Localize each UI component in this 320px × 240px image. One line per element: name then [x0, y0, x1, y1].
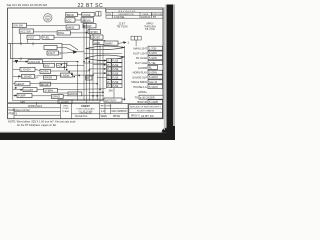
cascade box b5 — [91, 35, 104, 39]
svg-text:LDOCK: LDOCK — [69, 92, 78, 96]
battery box — [104, 98, 122, 102]
wire arrow down-left — [15, 60, 19, 63]
cable loom lens lower — [86, 55, 125, 60]
fuse block row f7 — [107, 84, 123, 88]
svg-text:BRKR: BRKR — [67, 13, 74, 17]
svg-text:GRND: GRND — [52, 95, 60, 99]
wire list row w5 — [138, 65, 158, 69]
svg-text:5-TACH: 5-TACH — [149, 86, 158, 89]
svg-text:BT: BT — [153, 16, 157, 19]
svg-text:SCALE FUL: SCALE FUL — [75, 115, 88, 118]
title block center dividers — [71, 104, 128, 119]
junction dots — [77, 25, 125, 100]
svg-text:FUSE: FUSE — [112, 86, 119, 88]
fuse block row f4 — [107, 71, 123, 75]
svg-text:BILGE: BILGE — [41, 82, 49, 86]
svg-text:L BAND: L BAND — [22, 75, 31, 79]
callout box harness — [104, 41, 118, 45]
svg-text:22 B T: 22 B T — [119, 24, 126, 26]
svg-text:LTR: LTR — [107, 14, 111, 16]
connector 3-cell — [131, 36, 141, 40]
page background — [0, 0, 175, 140]
cascade box b6 — [93, 41, 105, 45]
connector drop wire — [135, 40, 137, 46]
svg-text:LTANK: LTANK — [83, 13, 91, 17]
device box row r4a — [15, 82, 30, 86]
cascade box a2 — [65, 18, 75, 23]
svg-text:5-ORN: 5-ORN — [149, 71, 157, 74]
device box row r3c — [61, 73, 73, 77]
wire list row w10 — [138, 91, 147, 94]
svg-text:WASH: WASH — [44, 76, 52, 80]
approval stamp circle — [44, 14, 52, 22]
svg-text:IGN SW: IGN SW — [13, 24, 23, 28]
wire stubs left column — [13, 8, 106, 96]
page edge shadow line — [164, 7, 165, 130]
svg-text:A SR REL: A SR REL — [114, 16, 125, 19]
svg-text:22 BT SC: 22 BT SC — [141, 114, 155, 118]
scan band soft edge — [165, 5, 167, 129]
svg-text:R E V I S I O N S: R E V I S I O N S — [119, 11, 136, 13]
svg-text:10/20/14: 10/20/14 — [141, 16, 151, 19]
svg-text:5-GRN: 5-GRN — [149, 57, 157, 60]
svg-text:LIVEW: LIVEW — [61, 73, 70, 77]
wire list row w11 wide — [135, 95, 163, 99]
svg-text:TO ANG: TO ANG — [62, 110, 70, 113]
svg-text:FUSE: FUSE — [112, 82, 119, 84]
svg-text:HORN: HORN — [41, 70, 49, 74]
wire list row w9 — [133, 85, 162, 89]
wire list row w2 — [133, 51, 162, 55]
svg-text:LBOW: LBOW — [84, 24, 92, 28]
wire list row w12 — [138, 100, 163, 104]
device box L-HARN — [58, 100, 72, 104]
svg-text:HORN RLAY: HORN RLAY — [133, 72, 148, 75]
svg-text:for the 8T hold/pass. pages on: for the 8T hold/pass. pages on file. — [17, 123, 57, 127]
fuse block row f2 — [107, 63, 123, 67]
scan black corner extension — [167, 126, 176, 140]
fuse feed arrowheads — [104, 60, 107, 75]
svg-text:]Σ: ]Σ — [35, 75, 38, 79]
wire trunk verticals — [78, 17, 125, 103]
device box row r4b — [40, 82, 51, 86]
svg-text:5-GRAY: 5-GRAY — [149, 76, 158, 79]
svg-text:AERAT: AERAT — [16, 82, 25, 86]
device box row r6c — [51, 95, 63, 99]
svg-text:PLLT GGE: PLLT GGE — [135, 62, 147, 65]
svg-text:PUMP: PUMP — [18, 94, 26, 98]
wire rows mid — [27, 25, 125, 99]
svg-text:TRI TOON: TRI TOON — [117, 26, 128, 28]
device box row r1a — [28, 60, 43, 64]
svg-text:NOTE: Wired allow .055 X 1.00: NOTE: Wired allow .055 X 1.00 true br7. … — [8, 119, 76, 123]
svg-text:SEEN: SEEN — [101, 116, 108, 118]
wire list row w7 — [132, 75, 162, 79]
fuse block row f5 — [107, 76, 123, 80]
device box row r5c — [68, 92, 82, 96]
device box row r1c — [57, 63, 67, 67]
fuse feed wires — [89, 61, 106, 78]
loom tip arrow upper — [122, 47, 126, 49]
wire list row w4 — [135, 61, 163, 65]
wire mid horizontal b — [84, 62, 106, 64]
helm switch box S2 — [19, 29, 33, 33]
svg-text:NAV: NAV — [44, 63, 49, 67]
svg-text:LSTRN: LSTRN — [89, 30, 98, 34]
device box row r2b — [40, 70, 51, 74]
scan page corner fillet — [161, 128, 166, 133]
svg-text:REV: REV — [101, 106, 106, 108]
svg-text:ANCHOR: ANCHOR — [29, 60, 40, 64]
scan black band right — [167, 5, 174, 141]
svg-text:a 30 CHGER: a 30 CHGER — [140, 96, 155, 99]
wire list row w6 — [133, 70, 163, 74]
svg-text:STERN: STERN — [44, 89, 53, 93]
wire arrowheads into boxes — [15, 61, 29, 97]
svg-text:PROV X: PROV X — [131, 116, 140, 118]
wire mid horizontal a — [84, 53, 122, 55]
fuse stack drop wire — [113, 88, 115, 98]
callout arrow — [118, 42, 124, 45]
cascade link row1 — [77, 14, 82, 16]
cascade box a4 — [57, 31, 70, 35]
svg-text:SMLLE BRKR: SMLLE BRKR — [131, 81, 147, 84]
fuse block row f1 — [107, 59, 123, 63]
svg-text:BATTERY: BATTERY — [105, 98, 117, 102]
cascade box b4 — [88, 30, 101, 34]
scan black strip bottom — [0, 133, 173, 140]
svg-text:HRNS: HRNS — [67, 25, 75, 29]
cable loom lens upper — [86, 46, 125, 50]
svg-text:GAUGE OLP: GAUGE OLP — [132, 76, 147, 79]
device box row r3a — [18, 74, 38, 78]
cascade box a1 — [66, 12, 78, 16]
svg-text:NV GLGE: NV GLGE — [136, 57, 147, 60]
svg-text:CREST: CREST — [81, 104, 90, 108]
svg-text:1-A: 1-A — [101, 110, 105, 113]
cascade box b1 — [82, 12, 94, 16]
svg-text:FUSE: FUSE — [112, 73, 119, 75]
fuse block row f6 — [107, 80, 123, 84]
loom tip arrow lower — [122, 56, 126, 58]
svg-text:LGHT: LGHT — [48, 51, 55, 55]
svg-text:DWG: DWG — [106, 106, 112, 108]
svg-text:GRND+: GRND+ — [138, 91, 147, 94]
cascade cell pair — [96, 12, 101, 16]
svg-text:FUSE: FUSE — [112, 61, 119, 63]
svg-text:1-7GN: 1-7GN — [149, 47, 157, 50]
scan gray outer right margin — [173, 5, 175, 129]
svg-text:GLORM: GLORM — [138, 67, 147, 70]
console inner switch box — [47, 51, 59, 55]
svg-text:FUSE: FUSE — [112, 65, 119, 67]
trunk tap box — [86, 76, 93, 80]
title block top line — [8, 103, 163, 105]
svg-text:LHELM: LHELM — [82, 18, 91, 22]
svg-text:COURT: COURT — [24, 88, 34, 92]
cascade link row2 — [75, 19, 81, 21]
wire horizontal bus bottom — [8, 101, 103, 103]
svg-text:T.B. CON.: T.B. CON. — [145, 29, 156, 31]
wire list row w8 — [131, 80, 162, 84]
svg-text:5-GRN: 5-GRN — [149, 52, 157, 55]
svg-text:L-DASH: L-DASH — [21, 68, 31, 72]
svg-text:HARN: HARN — [105, 41, 112, 45]
helm switch box S1 — [12, 23, 26, 27]
revision table — [106, 10, 163, 19]
gauge box G1 — [27, 35, 40, 39]
converge arrowhead — [73, 50, 78, 53]
console inner connector J1 — [44, 46, 57, 50]
device box row r5a — [23, 88, 37, 92]
cascade box b2 — [81, 18, 94, 23]
svg-text:Sat Oct 26 2014 10:30:25 AM: Sat Oct 26 2014 10:30:25 AM — [7, 3, 48, 7]
title block left table — [8, 104, 61, 119]
device box row r5b — [44, 88, 58, 92]
drawing frame — [8, 8, 163, 119]
console exit wires converge — [57, 45, 84, 54]
device box row r2a — [20, 67, 35, 71]
device box row r1b — [44, 63, 55, 67]
svg-text:OWOSSO MI: OWOSSO MI — [79, 112, 92, 114]
svg-text:30A: 30A — [109, 90, 114, 93]
svg-text:Dave Coll Sat: Dave Coll Sat — [16, 109, 30, 112]
svg-text:PRICE: PRICE — [113, 116, 120, 118]
svg-text:REPLACE OF REENTER REPLY: REPLACE OF REENTER REPLY — [130, 106, 162, 109]
svg-text:Gau 10: Gau 10 — [149, 81, 158, 84]
fuse block row f3 — [107, 67, 123, 71]
svg-text:FUEL: FUEL — [43, 35, 50, 39]
wire list row w3 — [136, 56, 163, 60]
console outline — [8, 42, 62, 60]
svg-text:5-YEL: 5-YEL — [149, 62, 157, 65]
svg-text:FUSE: FUSE — [112, 78, 119, 80]
device box row r3b — [44, 76, 57, 80]
svg-text:ROUGH CHANGE: ROUGH CHANGE — [137, 110, 155, 113]
svg-text:TO: TO — [135, 97, 138, 100]
svg-text:PLOT LGHT: PLOT LGHT — [133, 52, 147, 55]
right spec box — [129, 104, 163, 118]
svg-text:ACC SW: ACC SW — [20, 29, 31, 33]
cascade box a3 — [66, 25, 79, 29]
svg-text:FUSE: FUSE — [112, 69, 119, 71]
svg-text:MAIN LGHT: MAIN LGHT — [133, 48, 147, 51]
cascade box b3 — [83, 24, 96, 28]
svg-text:APPLY: APPLY — [146, 23, 154, 26]
svg-text:PANL: PANL — [58, 31, 65, 35]
junction dot staircase — [61, 64, 80, 77]
svg-text:APPROVALS: APPROVALS — [28, 105, 43, 108]
wire left bus vertical — [13, 27, 28, 100]
svg-text:0401 SM9DV8: 0401 SM9DV8 — [112, 111, 128, 113]
svg-text:ACC: ACC — [66, 18, 72, 22]
device box row r6a — [17, 94, 32, 98]
svg-text:VOLT: VOLT — [28, 35, 35, 39]
gauge box G2 — [42, 35, 54, 39]
wire list row w1 — [133, 46, 162, 50]
svg-text:HOUSE A.G: HOUSE A.G — [133, 86, 147, 89]
